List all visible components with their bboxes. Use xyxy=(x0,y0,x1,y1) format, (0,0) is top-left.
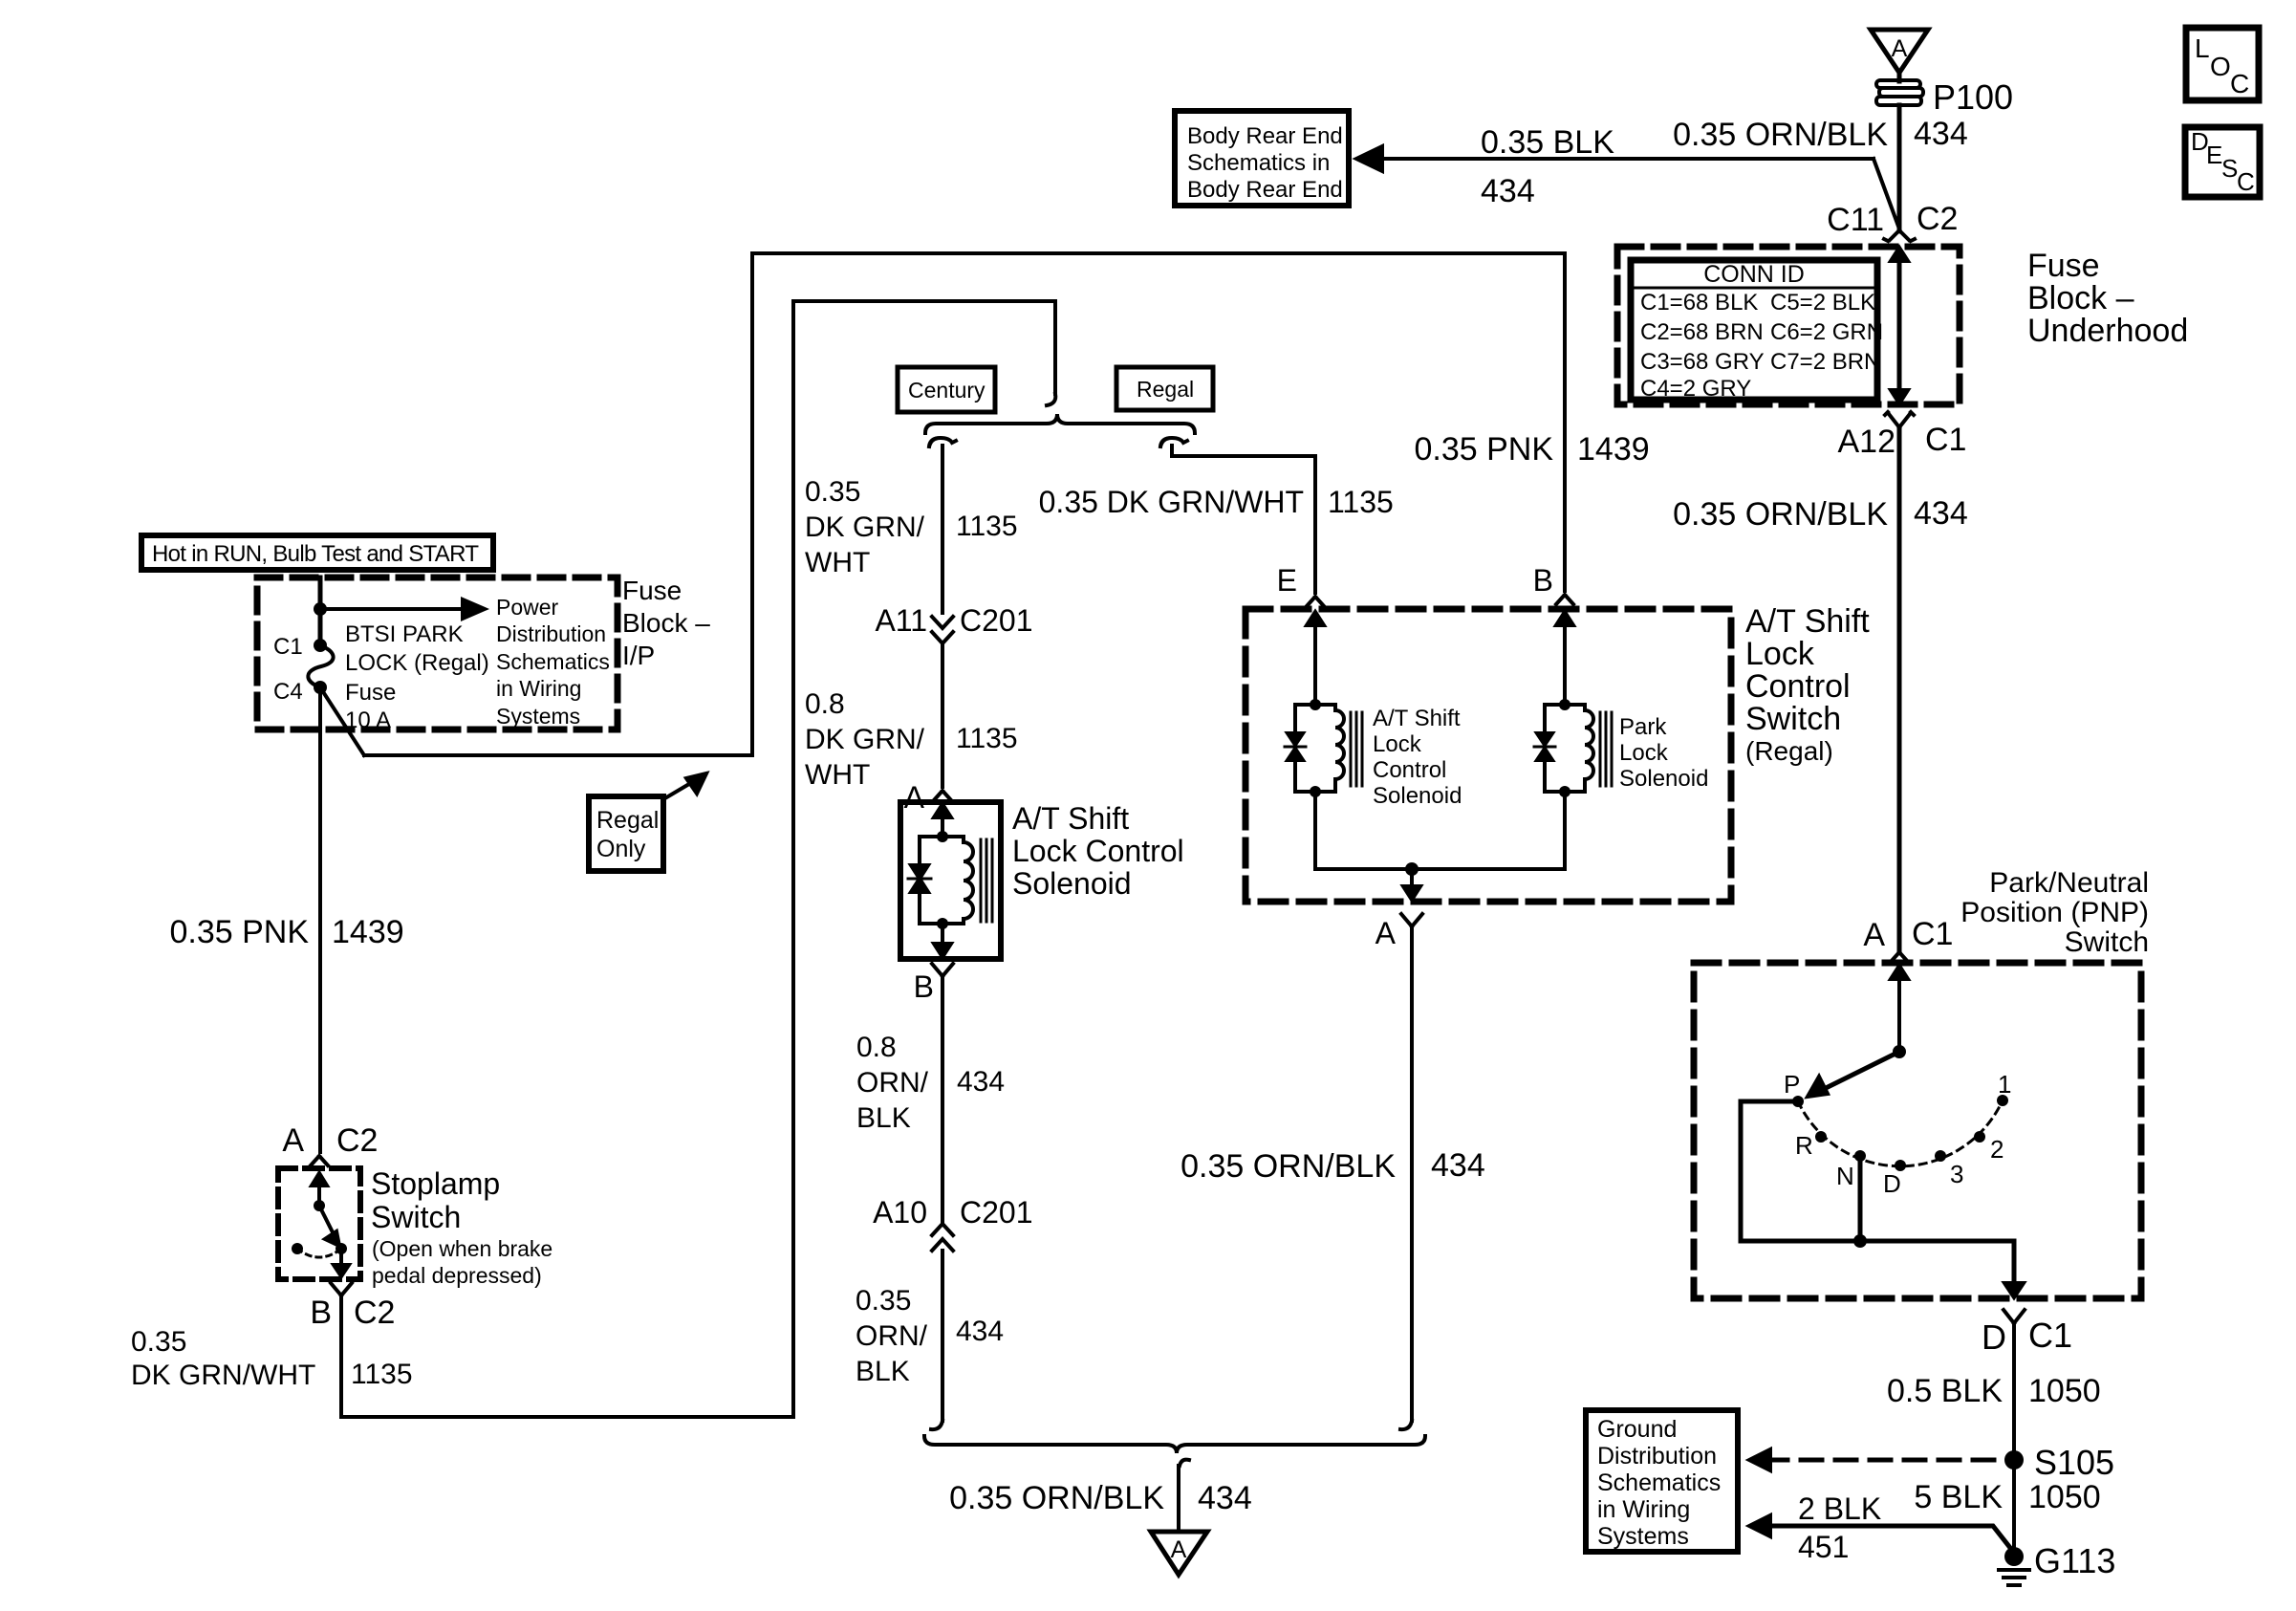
svg-text:434: 434 xyxy=(1198,1480,1252,1516)
svg-text:451: 451 xyxy=(1798,1530,1849,1564)
PNP contact R xyxy=(1815,1131,1827,1143)
svg-text:WHT: WHT xyxy=(805,759,870,791)
node C4 xyxy=(314,681,327,694)
solenoid internals (diode + coil) xyxy=(908,804,992,957)
label A/T Shift Lock Control Solenoid (in switch) xyxy=(1373,706,1462,809)
CONN ID table xyxy=(1631,260,1883,402)
svg-text:C1=68 BLK: C1=68 BLK xyxy=(1640,290,1758,316)
wire end curl above brace xyxy=(1047,394,1055,405)
wire bottom run up to Century/Regal brace xyxy=(341,301,1055,1417)
curl below brace xyxy=(1180,1460,1189,1466)
contact labels xyxy=(1784,1070,2011,1198)
terminal A/C1 PNP xyxy=(1863,916,1953,962)
wire switch A down 0.35 ORN/BLK 434 xyxy=(1180,926,1485,1421)
svg-text:C4: C4 xyxy=(273,679,303,705)
svg-text:10 A: 10 A xyxy=(345,708,391,733)
wire through fuse block with arrows xyxy=(1891,248,1908,403)
svg-text:A/T Shift: A/T Shift xyxy=(1373,706,1461,731)
svg-text:C3=68 GRY: C3=68 GRY xyxy=(1640,349,1765,375)
wire Regal branch to E, 0.35 DK GRN/WHT 1135 xyxy=(1039,446,1394,593)
junction node xyxy=(1853,1234,1867,1248)
svg-text:Systems: Systems xyxy=(1597,1523,1689,1550)
svg-text:Schematics: Schematics xyxy=(1597,1469,1721,1496)
svg-text:Lock: Lock xyxy=(1373,731,1422,757)
A/T shift lock control solenoid (in switch) xyxy=(1285,699,1362,797)
svg-text:Century: Century xyxy=(908,378,986,403)
svg-text:C2: C2 xyxy=(354,1295,395,1331)
PNP switch dashed box xyxy=(1694,963,2141,1298)
svg-text:Block –: Block – xyxy=(2027,280,2134,316)
svg-text:Switch: Switch xyxy=(2065,926,2149,958)
Regal option box xyxy=(1116,367,1213,410)
wire 5 BLK 1050 label xyxy=(1914,1479,2100,1515)
svg-text:A: A xyxy=(1892,35,1908,62)
A/T Shift Lock Control Solenoid box xyxy=(900,802,1001,959)
PNP contact 3 xyxy=(1935,1150,1946,1162)
svg-text:Park/Neutral: Park/Neutral xyxy=(1989,867,2149,899)
svg-text:Regal: Regal xyxy=(1137,377,1194,402)
svg-text:1439: 1439 xyxy=(332,914,404,950)
svg-text:Schematics: Schematics xyxy=(496,649,610,674)
wire 2 BLK 451 to G113 xyxy=(1749,1491,2014,1564)
svg-text:3: 3 xyxy=(1950,1160,1963,1188)
PNP contact D xyxy=(1895,1160,1906,1171)
svg-text:Solenoid: Solenoid xyxy=(1373,783,1462,809)
svg-text:D: D xyxy=(1883,1169,1901,1198)
svg-text:0.35 ORN/BLK: 0.35 ORN/BLK xyxy=(1673,117,1888,153)
svg-text:A: A xyxy=(282,1122,304,1159)
svg-text:Distribution: Distribution xyxy=(496,621,606,646)
connector A12/C1 xyxy=(1838,412,1967,460)
svg-text:C1: C1 xyxy=(1925,422,1966,458)
stoplamp switch internals xyxy=(292,1173,349,1276)
svg-text:DK GRN/: DK GRN/ xyxy=(805,724,925,755)
connector B/C2 stoplamp xyxy=(310,1283,395,1331)
wire end curl above bottom brace (right) xyxy=(1400,1421,1412,1429)
svg-text:ORN/: ORN/ xyxy=(856,1067,929,1099)
svg-text:L: L xyxy=(2195,33,2210,63)
svg-text:0.35: 0.35 xyxy=(805,476,860,508)
svg-text:434: 434 xyxy=(1481,173,1535,209)
wire A into PNP xyxy=(1891,966,1908,1058)
svg-text:G113: G113 xyxy=(2034,1541,2115,1580)
svg-text:0.35 ORN/BLK: 0.35 ORN/BLK xyxy=(1673,496,1888,533)
svg-text:2: 2 xyxy=(1990,1135,2004,1164)
svg-text:B: B xyxy=(914,969,934,1004)
svg-text:C5=2 BLK: C5=2 BLK xyxy=(1770,290,1875,316)
wire N contact down xyxy=(1858,1156,1863,1241)
wire output down with arrow xyxy=(2004,1241,2024,1297)
svg-text:C2: C2 xyxy=(1917,201,1958,237)
wire A10 down 0.35 ORN/BLK 434 xyxy=(856,1251,1004,1421)
svg-text:DK GRN/WHT: DK GRN/WHT xyxy=(131,1360,315,1391)
svg-text:Control: Control xyxy=(1745,668,1851,705)
svg-text:Stoplamp: Stoplamp xyxy=(371,1166,500,1201)
Body Rear End reference box xyxy=(1175,111,1349,206)
connector A11/C201 xyxy=(875,603,1032,643)
Ground Distribution reference box xyxy=(1586,1410,1738,1552)
svg-text:Distribution: Distribution xyxy=(1597,1443,1717,1469)
svg-text:0.35 PNK: 0.35 PNK xyxy=(1414,431,1553,468)
svg-text:0.35 PNK: 0.35 PNK xyxy=(169,914,309,950)
Park Lock Solenoid (in switch) xyxy=(1534,699,1612,797)
svg-text:A/T Shift: A/T Shift xyxy=(1012,801,1129,836)
svg-text:A/T Shift: A/T Shift xyxy=(1745,603,1870,640)
svg-text:434: 434 xyxy=(1431,1147,1485,1184)
svg-text:pedal depressed): pedal depressed) xyxy=(372,1263,542,1288)
svg-text:WHT: WHT xyxy=(805,547,870,578)
off-page connector triangle A (bottom) xyxy=(1151,1532,1207,1575)
fuse BTSI PARK LOCK element xyxy=(308,645,333,687)
svg-text:434: 434 xyxy=(1914,495,1968,532)
svg-text:1135: 1135 xyxy=(351,1359,413,1390)
wire P100 to C11/C2 with label 0.35 ORN/BLK 434 xyxy=(1897,105,1902,229)
svg-text:Fuse: Fuse xyxy=(2027,248,2100,284)
wire triangle to P100 xyxy=(1897,73,1902,81)
svg-text:C1: C1 xyxy=(1912,916,1953,952)
svg-text:N: N xyxy=(1836,1162,1854,1190)
svg-text:0.35: 0.35 xyxy=(131,1326,186,1358)
bottom collector brace xyxy=(924,1436,1425,1453)
label A/T Shift Lock Control Switch (Regal) xyxy=(1745,603,1870,766)
svg-text:in Wiring: in Wiring xyxy=(496,676,581,701)
svg-text:434: 434 xyxy=(957,1066,1005,1098)
inline connector P100 xyxy=(1876,80,1923,105)
svg-text:Schematics in: Schematics in xyxy=(1187,150,1330,176)
svg-text:D: D xyxy=(1982,1317,2006,1357)
svg-text:C1: C1 xyxy=(2028,1316,2072,1355)
Regal branch curl xyxy=(1160,438,1187,446)
svg-text:C2: C2 xyxy=(336,1122,378,1159)
label Power Distribution Schematics in Wiring Systems xyxy=(496,595,610,729)
svg-text:Body Rear End: Body Rear End xyxy=(1187,123,1343,149)
svg-text:Lock Control: Lock Control xyxy=(1012,834,1184,868)
A/T Shift Lock Control Switch dashed box xyxy=(1245,609,1731,902)
PNP wiper arm xyxy=(1808,1052,1899,1097)
svg-text:Lock: Lock xyxy=(1619,740,1669,766)
svg-text:(Regal): (Regal) xyxy=(1745,736,1833,766)
terminal A switch output xyxy=(1375,914,1422,950)
svg-text:0.8: 0.8 xyxy=(805,688,845,720)
svg-text:1135: 1135 xyxy=(956,723,1018,754)
svg-text:Body Rear End: Body Rear End xyxy=(1187,177,1343,203)
wire end curl above bottom brace (left) xyxy=(931,1421,942,1429)
svg-text:Fuse: Fuse xyxy=(345,680,396,706)
label Fuse Block - I/P xyxy=(622,576,710,670)
label Park/Neutral Position (PNP) Switch xyxy=(1960,867,2149,958)
svg-text:A: A xyxy=(1863,917,1885,953)
svg-text:I/P: I/P xyxy=(622,641,655,670)
svg-text:C4=2 GRY: C4=2 GRY xyxy=(1640,376,1751,402)
svg-text:5 BLK: 5 BLK xyxy=(1914,1479,2003,1515)
svg-text:0.35 ORN/BLK: 0.35 ORN/BLK xyxy=(1180,1148,1396,1185)
svg-text:2 BLK: 2 BLK xyxy=(1798,1491,1881,1526)
connector A10/C201 xyxy=(873,1195,1032,1251)
PNP contact arc xyxy=(1798,1100,2003,1166)
option brace xyxy=(925,414,1195,433)
Hot in RUN feed box xyxy=(141,535,493,570)
svg-text:DK GRN/: DK GRN/ xyxy=(805,512,925,543)
svg-text:LOCK (Regal): LOCK (Regal) xyxy=(345,650,489,676)
svg-text:C11: C11 xyxy=(1827,202,1884,238)
Century branch curl xyxy=(929,438,956,446)
svg-text:O: O xyxy=(2210,52,2231,81)
svg-text:Solenoid: Solenoid xyxy=(1012,866,1132,901)
svg-text:Park: Park xyxy=(1619,714,1667,740)
svg-text:Block –: Block – xyxy=(622,608,710,638)
svg-text:434: 434 xyxy=(956,1316,1004,1347)
svg-text:CONN ID: CONN ID xyxy=(1703,261,1805,288)
svg-text:C: C xyxy=(2237,167,2255,196)
Regal Only tag box xyxy=(589,773,706,871)
svg-text:A: A xyxy=(1171,1536,1187,1563)
junction node xyxy=(314,602,327,616)
LOC legend box xyxy=(2186,28,2259,100)
svg-text:0.8: 0.8 xyxy=(856,1032,897,1063)
svg-text:1050: 1050 xyxy=(2028,1373,2101,1409)
label Fuse Block - Underhood xyxy=(2027,248,2188,349)
wire fuse output down to stoplamp, 0.35 PNK 1439 xyxy=(169,687,403,1152)
DESC legend box xyxy=(2185,127,2260,197)
svg-text:BTSI PARK: BTSI PARK xyxy=(345,621,464,647)
Fuse Block I/P dashed box xyxy=(257,577,617,729)
wire brace to triangle 0.35 ORN/BLK 434 xyxy=(949,1466,1252,1532)
svg-text:Solenoid: Solenoid xyxy=(1619,766,1708,792)
off-page connector triangle A (top) xyxy=(1871,30,1928,73)
wire solenoid B down 0.8 ORN/BLK 434 xyxy=(856,976,1005,1223)
svg-text:BLK: BLK xyxy=(856,1102,911,1134)
svg-text:0.35 BLK: 0.35 BLK xyxy=(1481,124,1614,161)
PNP contact 2 xyxy=(1974,1131,1985,1143)
svg-text:0.35 ORN/BLK: 0.35 ORN/BLK xyxy=(949,1480,1164,1516)
svg-text:C201: C201 xyxy=(960,1195,1033,1230)
svg-text:B: B xyxy=(310,1295,332,1331)
wire P contact to output xyxy=(1741,1101,2014,1241)
svg-text:Control: Control xyxy=(1373,757,1446,783)
svg-text:Only: Only xyxy=(596,836,646,862)
svg-text:C7=2 BRN: C7=2 BRN xyxy=(1770,349,1880,375)
svg-text:C1: C1 xyxy=(273,634,303,660)
PNP contact N xyxy=(1854,1150,1866,1162)
label Stoplamp Switch xyxy=(371,1166,552,1288)
terminal B solenoid xyxy=(914,964,953,1004)
wire A12 down to PNP switch, 0.35 ORN/BLK 434 xyxy=(1673,427,1968,952)
Fuse Block Underhood dashed box xyxy=(1617,247,1960,404)
connector C11/C2 xyxy=(1827,201,1958,241)
terminal D/C1 PNP xyxy=(1982,1310,2072,1357)
svg-text:Fuse: Fuse xyxy=(622,576,682,605)
svg-text:S: S xyxy=(2221,154,2238,183)
label BTSI PARK LOCK fuse xyxy=(345,621,489,733)
svg-text:Position (PNP): Position (PNP) xyxy=(1960,897,2149,928)
svg-text:in Wiring: in Wiring xyxy=(1597,1496,1690,1523)
label Park Lock Solenoid xyxy=(1619,714,1708,792)
solenoid common bus xyxy=(1315,792,1565,900)
svg-text:C: C xyxy=(2230,69,2249,98)
svg-text:Underhood: Underhood xyxy=(2027,313,2188,349)
svg-text:Ground: Ground xyxy=(1597,1416,1677,1443)
svg-text:P100: P100 xyxy=(1933,77,2013,117)
svg-text:Power: Power xyxy=(496,595,559,620)
svg-text:Hot in RUN, Bulb Test and STAR: Hot in RUN, Bulb Test and START xyxy=(152,541,479,567)
svg-text:Lock: Lock xyxy=(1745,636,1815,672)
svg-text:1: 1 xyxy=(1998,1070,2011,1099)
Stoplamp Switch dashed box xyxy=(278,1168,360,1279)
terminal B shift lock switch xyxy=(1533,563,1573,604)
svg-text:(Open when brake: (Open when brake xyxy=(372,1236,552,1261)
svg-text:B: B xyxy=(1533,563,1553,598)
svg-text:A: A xyxy=(1375,916,1397,950)
terminal E shift lock switch xyxy=(1277,563,1324,606)
svg-text:E: E xyxy=(1277,563,1297,598)
PNP contact 1 xyxy=(1997,1095,2008,1106)
svg-text:A11: A11 xyxy=(875,603,927,638)
svg-text:Switch: Switch xyxy=(371,1200,461,1234)
svg-text:BLK: BLK xyxy=(856,1356,910,1387)
svg-text:Switch: Switch xyxy=(1745,701,1841,737)
node C1 xyxy=(314,639,327,652)
arrow to Power Distribution xyxy=(325,599,485,619)
svg-text:ORN/: ORN/ xyxy=(856,1320,928,1352)
svg-text:Systems: Systems xyxy=(496,704,580,729)
svg-text:Regal: Regal xyxy=(596,807,659,834)
svg-text:C201: C201 xyxy=(960,603,1033,638)
wire 0.35 BLK 434 arrow to Body Rear End xyxy=(1356,124,1900,231)
wire A11 to solenoid 0.8 DK GRN/WHT 1135 xyxy=(805,643,1018,791)
Century option box xyxy=(898,367,995,412)
svg-text:P: P xyxy=(1784,1070,1800,1099)
svg-text:0.35: 0.35 xyxy=(856,1285,911,1317)
svg-text:C6=2 GRN: C6=2 GRN xyxy=(1770,319,1883,345)
svg-text:1135: 1135 xyxy=(956,511,1018,542)
ground G113 xyxy=(1999,1541,2115,1585)
label A/T Shift Lock Control Solenoid xyxy=(1012,801,1184,901)
svg-text:434: 434 xyxy=(1914,116,1968,152)
svg-text:C2=68 BRN: C2=68 BRN xyxy=(1640,319,1764,345)
svg-text:A10: A10 xyxy=(873,1195,927,1230)
splice S105 xyxy=(2004,1443,2114,1482)
svg-text:A: A xyxy=(904,780,925,815)
svg-text:S105: S105 xyxy=(2034,1443,2114,1482)
wire Century branch 0.35 DK GRN/WHT 1135 xyxy=(805,446,1018,613)
PNP contact P xyxy=(1792,1096,1804,1107)
wire fuse output to shift lock branch xyxy=(320,253,1650,755)
wire stoplamp output 0.35 DK GRN/WHT 1135 xyxy=(131,1295,413,1417)
svg-text:1439: 1439 xyxy=(1577,431,1650,468)
svg-text:1050: 1050 xyxy=(2028,1479,2101,1515)
wire D down 0.5 BLK 1050 xyxy=(1887,1323,2101,1556)
svg-text:R: R xyxy=(1795,1131,1813,1160)
wire from hot feed into fuse xyxy=(318,577,323,645)
terminal A solenoid xyxy=(904,780,951,815)
connector A/C2 stoplamp xyxy=(282,1122,378,1165)
dashed branch to ground distribution xyxy=(1749,1449,2004,1470)
svg-text:1135: 1135 xyxy=(1328,485,1394,519)
svg-text:E: E xyxy=(2206,141,2222,169)
svg-text:0.35 DK GRN/WHT: 0.35 DK GRN/WHT xyxy=(1039,485,1304,519)
wire E into box xyxy=(1307,612,1324,705)
wire B into box xyxy=(1556,612,1573,705)
svg-text:0.5 BLK: 0.5 BLK xyxy=(1887,1373,2003,1409)
svg-text:A12: A12 xyxy=(1838,424,1896,460)
